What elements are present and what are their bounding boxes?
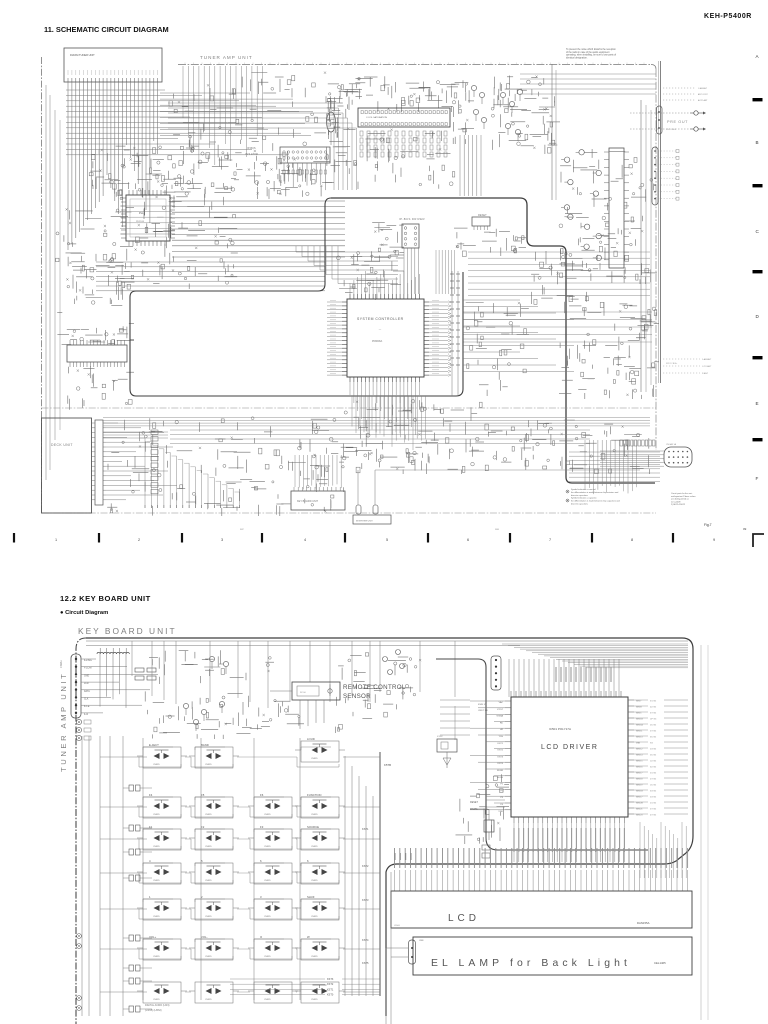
svg-text:KST2: KST2 bbox=[498, 750, 504, 752]
top bus wires bbox=[86, 640, 688, 642]
svg-text:F1: F1 bbox=[149, 825, 153, 829]
svg-text:CN8R5: CN8R5 bbox=[264, 956, 271, 958]
svg-text:4/7 SG: 4/7 SG bbox=[650, 815, 657, 817]
svg-text:8: 8 bbox=[631, 538, 633, 542]
svg-text:PD6606A: PD6606A bbox=[372, 340, 383, 343]
switch bbox=[254, 982, 292, 1003]
connector pads lower left bbox=[77, 934, 82, 1011]
svg-text:KST3: KST3 bbox=[498, 756, 504, 758]
svg-text:7: 7 bbox=[549, 538, 551, 542]
extra mesh C bbox=[466, 302, 529, 396]
svg-text:9: 9 bbox=[713, 538, 715, 542]
svg-text:SEG1B: SEG1B bbox=[636, 791, 643, 793]
svg-text:6: 6 bbox=[307, 859, 309, 863]
svg-text:● Circuit Diagram: ● Circuit Diagram bbox=[60, 610, 108, 616]
right faint border bbox=[700, 645, 702, 1020]
long wires right mid bbox=[463, 312, 652, 342]
svg-text:SEG18: SEG18 bbox=[636, 779, 643, 781]
svg-text:SEG21: SEG21 bbox=[636, 809, 643, 811]
LCD driver left wires bbox=[470, 701, 505, 810]
tuner unit pin row bbox=[68, 78, 158, 82]
controller right wires bbox=[463, 300, 574, 372]
border corner bbox=[651, 65, 656, 70]
right area wires bbox=[559, 149, 657, 284]
wires below top border bbox=[183, 66, 263, 169]
controller right pin fan bbox=[429, 301, 451, 377]
svg-text:the differentiation is made be: the differentiation is made between chip… bbox=[571, 491, 618, 494]
deck connector column bbox=[151, 430, 158, 494]
switch bbox=[301, 982, 339, 1003]
svg-text:KST1: KST1 bbox=[327, 988, 334, 991]
svg-text:CN8R5: CN8R5 bbox=[205, 956, 212, 958]
svg-text:E-JECT: E-JECT bbox=[149, 743, 159, 747]
svg-text:C-AM ANT: C-AM ANT bbox=[698, 87, 708, 90]
controller area wires upper bbox=[337, 251, 405, 300]
svg-text:CN8R5: CN8R5 bbox=[311, 956, 318, 958]
svg-text:CN8R5: CN8R5 bbox=[311, 758, 318, 760]
svg-text:1/2 SG: 1/2 SG bbox=[650, 761, 657, 763]
svg-text:F4: F4 bbox=[149, 793, 153, 797]
LCD driver right pins bbox=[628, 700, 643, 817]
svg-text:SPK 12 B06+: SPK 12 B06+ bbox=[666, 363, 678, 365]
EL lamp wire down right bbox=[390, 957, 392, 1024]
antenna wire labels right bbox=[663, 358, 712, 375]
ruler numbers bbox=[55, 538, 715, 542]
mid parts cluster bbox=[145, 691, 269, 739]
svg-text:Symbol indicates a com-trol.: Symbol indicates a com-trol. bbox=[571, 488, 597, 491]
tuner amp unit outer border right bbox=[655, 69, 657, 450]
svg-text:2/3 SG: 2/3 SG bbox=[650, 749, 657, 751]
svg-text:CN8R5: CN8R5 bbox=[153, 846, 160, 848]
vertical drops from top bus bbox=[132, 641, 455, 708]
svg-text:SEG17: SEG17 bbox=[636, 773, 643, 775]
svg-text:CN8R5: CN8R5 bbox=[264, 814, 271, 816]
svg-text:RESET: RESET bbox=[470, 801, 479, 804]
svg-text:IP-BUS DRIVER: IP-BUS DRIVER bbox=[399, 217, 425, 221]
wires to din bbox=[600, 451, 664, 466]
svg-text:SEG15: SEG15 bbox=[636, 761, 643, 763]
svg-text:KST1: KST1 bbox=[362, 827, 369, 831]
svg-text:CN8A1: CN8A1 bbox=[60, 660, 63, 668]
svg-text:VBB: VBB bbox=[636, 743, 641, 745]
svg-text:P-ANT: P-ANT bbox=[702, 372, 709, 375]
svg-text:F: F bbox=[756, 476, 759, 481]
svg-text:To prevent the noise which dis: To prevent the noise which disturbs the … bbox=[566, 48, 617, 51]
svg-text:SEG12: SEG12 bbox=[636, 749, 643, 751]
svg-text:INVERTER UNIT: INVERTER UNIT bbox=[356, 521, 373, 523]
svg-text:DECK UNIT: DECK UNIT bbox=[51, 443, 73, 447]
svg-text:5/1 SG: 5/1 SG bbox=[650, 773, 657, 775]
svg-text:SEG23: SEG23 bbox=[636, 815, 643, 817]
svg-text:CN8R5: CN8R5 bbox=[205, 764, 212, 766]
svg-text:KST1: KST1 bbox=[498, 743, 504, 745]
svg-text:CN8R5: CN8R5 bbox=[153, 999, 160, 1001]
svg-text:—: — bbox=[379, 328, 382, 331]
svg-text:P3: P3 bbox=[500, 797, 503, 799]
svg-text:K5TB: K5TB bbox=[384, 763, 391, 767]
right top wires bbox=[491, 76, 560, 155]
svg-text:11. SCHEMATIC CIRCUIT DIAGRAM: 11. SCHEMATIC CIRCUIT DIAGRAM bbox=[44, 25, 169, 34]
svg-text:3KP: 3KP bbox=[240, 529, 244, 531]
svg-text:5/3 SG: 5/3 SG bbox=[650, 797, 657, 799]
svg-text:4: 4 bbox=[149, 859, 151, 863]
svg-text:5: 5 bbox=[201, 859, 203, 863]
svg-text:2/7 SG: 2/7 SG bbox=[650, 779, 657, 781]
mid clusters between fanout and enclosure bbox=[169, 84, 236, 194]
svg-text:CN8R5: CN8R5 bbox=[205, 846, 212, 848]
right of enclosure parts upper bbox=[531, 250, 600, 304]
output driver strip IC7 bbox=[609, 148, 624, 268]
right top rails bbox=[551, 64, 553, 200]
PLL to controller bus bbox=[172, 201, 345, 257]
corner bracket bbox=[753, 534, 764, 547]
svg-text:KEY BOARD UNIT: KEY BOARD UNIT bbox=[78, 626, 177, 636]
audio section parts left bbox=[327, 84, 363, 174]
svg-text:SEG16: SEG16 bbox=[636, 767, 643, 769]
svg-text:SEG14: SEG14 bbox=[636, 755, 643, 757]
remote control sensor box bbox=[292, 682, 340, 700]
svg-text:identical designation.: identical designation. bbox=[566, 56, 588, 59]
svg-text:6: 6 bbox=[467, 538, 469, 542]
svg-text:CEL1465: CEL1465 bbox=[654, 961, 666, 965]
matrix right thick bus bbox=[379, 752, 381, 996]
switch bbox=[143, 982, 181, 1003]
kdata wires bbox=[482, 800, 505, 858]
reset circuit parts bbox=[454, 228, 526, 256]
below controller parts bbox=[341, 399, 484, 474]
svg-text:CN8R5: CN8R5 bbox=[205, 880, 212, 882]
svg-text:5: 5 bbox=[386, 538, 388, 542]
deck unit box bbox=[42, 418, 92, 513]
deck right bus bbox=[103, 418, 650, 426]
svg-text:RD: RD bbox=[500, 722, 504, 724]
svg-text:SG: SG bbox=[650, 743, 653, 745]
svg-text:2) B022+P0022: 2) B022+P0022 bbox=[671, 504, 686, 506]
deck area parts bbox=[107, 417, 344, 516]
svg-text:1-AM ANT: 1-AM ANT bbox=[702, 358, 712, 361]
svg-text:12.2 KEY BOARD UNIT: 12.2 KEY BOARD UNIT bbox=[60, 594, 151, 603]
svg-text:6: 6 bbox=[260, 859, 262, 863]
svg-text:CN 8A5 1A: CN 8A5 1A bbox=[666, 443, 677, 446]
CN8A1 wires bbox=[81, 659, 158, 713]
matrix right rails bbox=[345, 756, 373, 996]
extra mesh B bbox=[66, 256, 134, 304]
section boundary chain line bbox=[42, 407, 657, 409]
controller bottom pin wires bbox=[350, 382, 419, 435]
top mid transistors Q801 Q802 bbox=[205, 656, 229, 674]
EL lamp wires bbox=[386, 947, 408, 949]
svg-text:SEG17: SEG17 bbox=[636, 797, 643, 799]
svg-text:3: 3 bbox=[221, 538, 223, 542]
PLL IC pins bbox=[121, 190, 175, 246]
svg-text:AUTO ANT: AUTO ANT bbox=[698, 99, 708, 102]
svg-text:CN8R5: CN8R5 bbox=[205, 814, 212, 816]
bottom note block bbox=[566, 488, 620, 506]
svg-text:IC5B2: IC5B2 bbox=[437, 736, 443, 738]
system controller IC IC601 qfp body bbox=[347, 299, 424, 377]
inductor wires down bbox=[100, 654, 126, 708]
top bus to LCD driver horizontals bbox=[502, 644, 688, 668]
inverter wires bbox=[357, 470, 359, 505]
svg-text:LOUD: LOUD bbox=[307, 737, 315, 741]
svg-text:CNT 4 B06: CNT 4 B06 bbox=[666, 129, 677, 131]
sensor wires bbox=[270, 690, 292, 692]
EL lamp wire down left bbox=[385, 948, 387, 1024]
left mid component box bbox=[437, 739, 457, 752]
svg-text:SOURCE: SOURCE bbox=[307, 825, 319, 829]
svg-text:3/7 SG: 3/7 SG bbox=[650, 713, 657, 715]
bottom stacked labels bbox=[230, 978, 380, 997]
isolator wires down bbox=[284, 163, 325, 190]
svg-text:C-VOL SATURATION: C-VOL SATURATION bbox=[366, 116, 387, 119]
svg-text:REMOTE CONTROL: REMOTE CONTROL bbox=[343, 684, 406, 691]
svg-text:SEG1B: SEG1B bbox=[636, 719, 643, 721]
key board unit block bbox=[291, 491, 345, 510]
svg-text:IL.LE: IL.LE bbox=[84, 706, 90, 708]
tuner amp unit outer border top bbox=[178, 64, 651, 66]
LCD driver top pin bus bbox=[509, 659, 619, 697]
connector CN8A1 bbox=[71, 654, 81, 718]
svg-text:LCD: LCD bbox=[448, 913, 480, 924]
right of enclosure parts lower bbox=[559, 302, 659, 399]
speaker out connector CN6 bbox=[652, 147, 658, 205]
svg-text:CN8R5: CN8R5 bbox=[311, 880, 318, 882]
svg-text:5M6: 5M6 bbox=[495, 529, 500, 531]
right faint border 2 bbox=[707, 645, 709, 1020]
wires IC5 to controller bbox=[460, 135, 481, 196]
svg-text:D: D bbox=[756, 314, 760, 319]
svg-text:KEY BOARD UNIT: KEY BOARD UNIT bbox=[297, 500, 319, 503]
tuner components row bbox=[89, 146, 202, 189]
audio section parts right bbox=[451, 80, 474, 144]
bottom middle bundle bbox=[585, 440, 637, 494]
LCD driver IC IC501 body bbox=[511, 697, 628, 817]
svg-text:GND: GND bbox=[84, 675, 89, 677]
wires to pre out bbox=[630, 112, 690, 114]
pre out jacks bbox=[690, 111, 706, 131]
inverter connectors bbox=[356, 505, 361, 514]
mid transistor group bbox=[183, 701, 224, 731]
switch bbox=[195, 982, 233, 1003]
isolator resistor dots bbox=[283, 170, 327, 174]
electronic volume IC IC5 bbox=[358, 108, 450, 127]
IP-BUS driver IC IC602 bbox=[402, 224, 419, 248]
PLL surrounding parts bbox=[111, 178, 239, 289]
svg-text:P4: P4 bbox=[500, 804, 503, 806]
svg-text:3: 3 bbox=[260, 895, 262, 899]
svg-text:LCD DRIVER: LCD DRIVER bbox=[541, 744, 598, 751]
svg-text:1: 1 bbox=[55, 538, 57, 542]
svg-text:3/1 SG: 3/1 SG bbox=[650, 701, 657, 703]
left rail wires bbox=[45, 85, 47, 480]
svg-text:KST3: KST3 bbox=[362, 898, 369, 902]
bottom note right bbox=[671, 492, 696, 506]
svg-text:F6: F6 bbox=[260, 793, 264, 797]
svg-text:5/7 SG: 5/7 SG bbox=[650, 809, 657, 811]
svg-text:F5: F5 bbox=[201, 793, 205, 797]
left LED column bbox=[123, 785, 152, 1012]
top pin rotated labels bbox=[556, 667, 611, 682]
svg-text:1/F SG: 1/F SG bbox=[650, 719, 657, 721]
svg-text:SEG19: SEG19 bbox=[636, 785, 643, 787]
svg-text:discrete capacitors.: discrete capacitors. bbox=[571, 494, 589, 497]
svg-text:CN8R5: CN8R5 bbox=[311, 814, 318, 816]
svg-text:VAC: VAC bbox=[499, 701, 504, 704]
IC5 area wires bbox=[358, 129, 455, 189]
svg-text:ANT CONT: ANT CONT bbox=[698, 93, 708, 96]
svg-text:CN8R5: CN8R5 bbox=[205, 999, 212, 1001]
svg-text:SEG11: SEG11 bbox=[636, 731, 643, 733]
bottom pin rotated labels bbox=[514, 828, 624, 852]
svg-text:WSBA: WSBA bbox=[497, 715, 504, 718]
keyboard enclosure border bbox=[86, 638, 693, 1016]
svg-text:the differentiation is made be: the differentiation is made between chip… bbox=[571, 500, 620, 503]
svg-text:W: W bbox=[307, 935, 310, 939]
svg-text:CN8R5: CN8R5 bbox=[153, 916, 160, 918]
matrix row wires bbox=[100, 757, 380, 992]
svg-text:ant/important P.base values: ant/important P.base values bbox=[671, 495, 696, 498]
system controller enclosure border bbox=[331, 198, 655, 483]
svg-text:YSS: YSS bbox=[499, 736, 504, 738]
EL lamp box bbox=[413, 937, 692, 975]
svg-text:1) C=1008: 1) C=1008 bbox=[671, 501, 681, 503]
inner bus loop around LCD driver bbox=[436, 659, 648, 850]
svg-text:CN8R5: CN8R5 bbox=[153, 956, 160, 958]
below controller bus bbox=[352, 396, 404, 438]
svg-text:P1: P1 bbox=[500, 784, 503, 786]
svg-text:SHUF: SHUF bbox=[307, 895, 315, 899]
LCD driver bottom pins bbox=[514, 817, 624, 862]
svg-text:1/5 SG: 1/5 SG bbox=[650, 785, 657, 787]
LCD com labels bbox=[395, 853, 411, 860]
svg-text:CN8R5: CN8R5 bbox=[153, 814, 160, 816]
svg-text:O: O bbox=[260, 935, 263, 939]
svg-text:CN8R5: CN8R5 bbox=[264, 880, 271, 882]
matrix left rails bbox=[82, 736, 123, 1016]
svg-text:KST3: KST3 bbox=[327, 978, 334, 981]
system controller pins bbox=[342, 294, 429, 382]
svg-text:are distinguished as: are distinguished as bbox=[671, 498, 689, 501]
svg-text:5/7 SG: 5/7 SG bbox=[650, 731, 657, 733]
svg-text:KDATA: KDATA bbox=[470, 808, 478, 811]
svg-text:P.CONT: P.CONT bbox=[84, 668, 93, 670]
svg-text:operating, when installing, be: operating, when installing, be sure to u… bbox=[566, 54, 616, 57]
svg-text:Symbol indicates a capacitor.: Symbol indicates a capacitor. bbox=[571, 497, 597, 500]
resistor pair blocks bbox=[135, 668, 156, 680]
svg-text:SEG7: SEG7 bbox=[636, 701, 642, 703]
transformer T1 bbox=[327, 112, 336, 132]
svg-text:F3: F3 bbox=[260, 825, 264, 829]
svg-text:VOL-: VOL- bbox=[201, 935, 208, 939]
extra mesh A bbox=[181, 142, 328, 200]
svg-text:SEG2B: SEG2B bbox=[636, 803, 643, 805]
svg-text:SEG5: SEG5 bbox=[636, 713, 642, 715]
svg-text:A1: A1 bbox=[500, 728, 503, 731]
svg-text:LD500: LD500 bbox=[394, 925, 401, 927]
svg-text:RC-50: RC-50 bbox=[300, 692, 307, 694]
block FM/AM TUNER UNIT bbox=[64, 48, 162, 82]
mid column transistor pair bbox=[383, 650, 405, 675]
connector CN8A5 keyboard bbox=[491, 656, 501, 690]
right bus down to LCD bbox=[640, 822, 686, 878]
svg-text:KST5: KST5 bbox=[362, 961, 369, 965]
LCD driver left pin labels bbox=[497, 701, 504, 813]
left mid components bbox=[56, 208, 134, 345]
bus bend into isolator area bbox=[168, 103, 357, 190]
svg-text:4: 4 bbox=[304, 538, 306, 542]
mid bottom parts bbox=[301, 448, 349, 492]
right rail double line bbox=[660, 61, 662, 383]
resistor network under IC5 bbox=[360, 131, 447, 157]
svg-text:DAN155A: DAN155A bbox=[637, 921, 650, 925]
deck fanout wires bbox=[106, 423, 177, 500]
svg-text:4/2 SG: 4/2 SG bbox=[650, 707, 657, 709]
ruler tick marks bbox=[13, 533, 674, 543]
svg-text:of the radio in case of the au: of the radio in case of the audio equipm… bbox=[566, 51, 610, 54]
PRE OUT connector CN7 bbox=[657, 106, 663, 134]
controller top pin wires bbox=[350, 271, 419, 294]
LCD driver right second labels bbox=[634, 700, 688, 817]
svg-text:KEH-P5400R: KEH-P5400R bbox=[704, 13, 752, 20]
svg-text:3/3 SG: 3/3 SG bbox=[650, 791, 657, 793]
svg-text:KST2: KST2 bbox=[327, 983, 334, 986]
tuner fanout wires vertical bbox=[68, 82, 158, 250]
svg-text:09: 09 bbox=[743, 527, 747, 531]
connector pads CN8A2 bbox=[76, 719, 91, 740]
deck staircase wires bbox=[140, 438, 240, 508]
din connector CN8A5 bbox=[664, 447, 692, 467]
svg-text:CN8: CN8 bbox=[419, 940, 424, 942]
svg-text:CNST 1/8: CNST 1/8 bbox=[478, 710, 488, 712]
IP-BUS isolator block bbox=[280, 147, 330, 163]
svg-text:Circuit parts for the vari-: Circuit parts for the vari- bbox=[671, 492, 693, 495]
svg-text:SENSOR: SENSOR bbox=[343, 693, 371, 700]
matrix column wires bbox=[143, 738, 300, 1000]
top middle audio section parts bbox=[328, 76, 459, 112]
inductor row L801 bbox=[97, 648, 129, 654]
isolator area parts bbox=[257, 158, 334, 199]
pin header row bbox=[620, 440, 655, 446]
LCD pin rotated labels bbox=[395, 848, 688, 868]
via strip right of controller bbox=[450, 271, 460, 396]
svg-text:TUNER AMP UNIT: TUNER AMP UNIT bbox=[59, 672, 68, 772]
svg-text:SEGB: SEGB bbox=[636, 707, 642, 709]
svg-text:DIGITAL AUDIO (L/R4): DIGITAL AUDIO (L/R4) bbox=[145, 1004, 170, 1007]
fold dashes right margin bbox=[753, 98, 763, 441]
left to controller long bus bbox=[96, 262, 325, 291]
svg-text:5/5 SG: 5/5 SG bbox=[650, 755, 657, 757]
svg-text:EL LAMP for Back Light: EL LAMP for Back Light bbox=[431, 958, 631, 969]
svg-text:IC501 POLY17A: IC501 POLY17A bbox=[549, 727, 571, 731]
svg-text:3/5 SG: 3/5 SG bbox=[650, 737, 657, 739]
svg-text:CN8R5: CN8R5 bbox=[205, 916, 212, 918]
svg-text:A: A bbox=[756, 54, 760, 59]
svg-text:CN8R5: CN8R5 bbox=[311, 846, 318, 848]
svg-text:2: 2 bbox=[201, 895, 203, 899]
inverter unit block bbox=[353, 515, 391, 524]
svg-text:1: 1 bbox=[149, 895, 151, 899]
svg-text:CN8R5: CN8R5 bbox=[264, 999, 271, 1001]
antenna wire stubs bbox=[663, 87, 708, 102]
grid letters right margin bbox=[756, 54, 760, 481]
svg-text:DATA: DATA bbox=[84, 690, 90, 693]
svg-text:CN8R5: CN8R5 bbox=[264, 846, 271, 848]
left small parts lower bbox=[68, 366, 134, 410]
svg-text:SYSTEM CONTROLLER: SYSTEM CONTROLLER bbox=[357, 317, 404, 321]
svg-text:KST4: KST4 bbox=[362, 938, 369, 942]
svg-text:E: E bbox=[756, 401, 759, 406]
crystal X501 bbox=[484, 820, 494, 832]
